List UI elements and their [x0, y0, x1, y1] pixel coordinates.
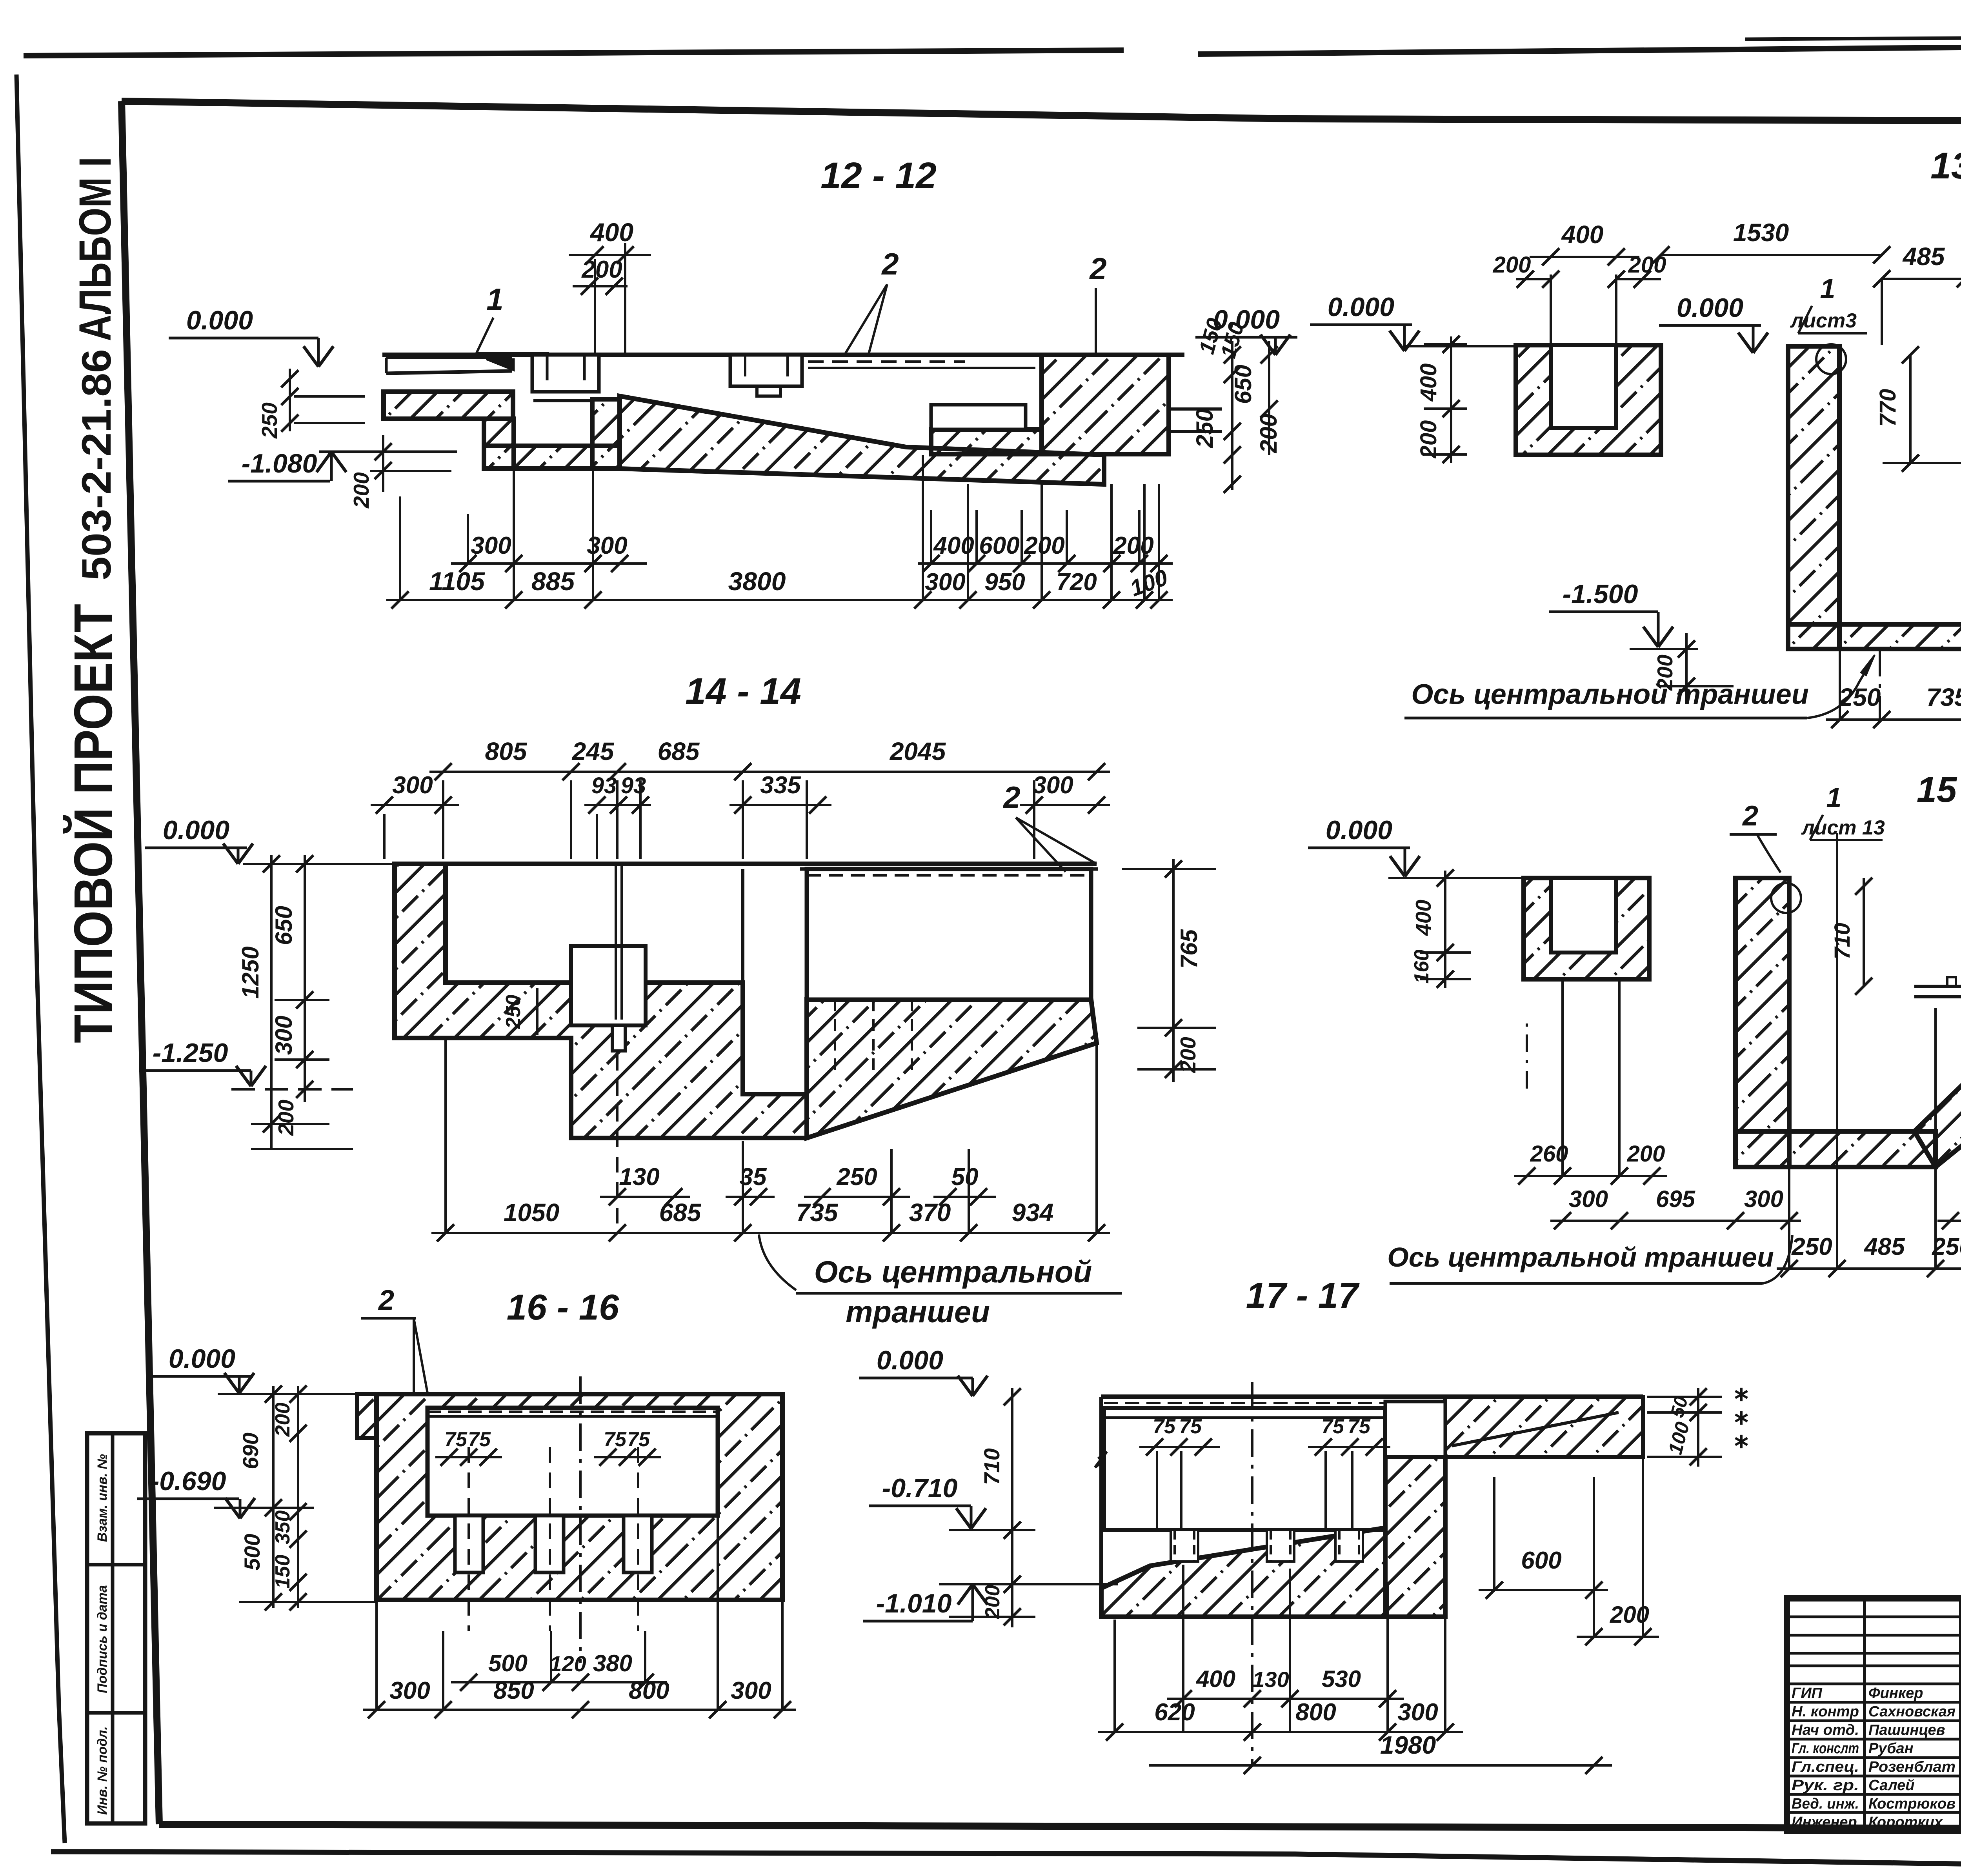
svg-text:530: 530 — [1322, 1666, 1361, 1692]
svg-text:1530: 1530 — [1733, 218, 1789, 247]
svg-text:1980: 1980 — [1380, 1731, 1436, 1759]
svg-text:765: 765 — [1176, 929, 1202, 969]
svg-text:ГИП: ГИП — [1792, 1685, 1823, 1701]
svg-text:650: 650 — [1230, 365, 1256, 404]
svg-text:300: 300 — [1033, 772, 1073, 799]
svg-text:300: 300 — [731, 1677, 771, 1704]
svg-text:17 - 17: 17 - 17 — [1246, 1276, 1360, 1316]
svg-text:Рубан: Рубан — [1868, 1740, 1914, 1757]
svg-text:Вед. инж.: Вед. инж. — [1792, 1796, 1859, 1812]
svg-text:950: 950 — [984, 569, 1025, 596]
svg-text:2: 2 — [1089, 251, 1106, 286]
svg-text:503-2-21.86: 503-2-21.86 — [74, 349, 120, 580]
svg-text:800: 800 — [629, 1677, 669, 1704]
svg-text:0.000: 0.000 — [1326, 815, 1392, 845]
svg-text:300: 300 — [1569, 1186, 1608, 1212]
svg-text:-1.010: -1.010 — [876, 1589, 952, 1618]
svg-text:0.000: 0.000 — [1677, 293, 1743, 323]
svg-text:0.000: 0.000 — [1328, 292, 1394, 322]
svg-text:400: 400 — [1411, 900, 1435, 936]
svg-text:685: 685 — [658, 737, 700, 765]
svg-text:200: 200 — [581, 256, 622, 283]
svg-text:620: 620 — [1154, 1699, 1195, 1726]
svg-text:120: 120 — [549, 1651, 586, 1676]
svg-text:300: 300 — [271, 1016, 297, 1055]
svg-text:-1.080: -1.080 — [242, 449, 317, 478]
svg-text:695: 695 — [1656, 1186, 1696, 1212]
svg-text:500: 500 — [240, 1534, 264, 1570]
svg-text:250: 250 — [502, 995, 525, 1029]
svg-text:0.000: 0.000 — [877, 1345, 943, 1375]
svg-text:-1.500: -1.500 — [1563, 579, 1638, 609]
svg-text:934: 934 — [1012, 1198, 1054, 1227]
svg-text:3800: 3800 — [728, 567, 786, 596]
svg-text:0.000: 0.000 — [186, 305, 253, 335]
svg-text:Коротких: Коротких — [1868, 1814, 1943, 1831]
svg-text:1: 1 — [1820, 273, 1835, 304]
svg-text:300: 300 — [471, 532, 511, 559]
svg-text:200: 200 — [1024, 532, 1064, 559]
svg-text:75: 75 — [444, 1428, 468, 1451]
svg-text:0.000: 0.000 — [169, 1344, 235, 1374]
svg-text:380: 380 — [593, 1650, 632, 1676]
svg-text:300: 300 — [392, 772, 433, 799]
svg-text:1: 1 — [1826, 782, 1842, 813]
svg-text:250: 250 — [1192, 409, 1218, 448]
svg-text:75: 75 — [468, 1428, 491, 1451]
svg-text:2: 2 — [1742, 800, 1758, 832]
svg-text:370: 370 — [909, 1198, 951, 1227]
svg-text:685: 685 — [659, 1198, 702, 1227]
svg-text:850: 850 — [493, 1677, 534, 1704]
svg-text:260: 260 — [1530, 1141, 1568, 1167]
svg-text:Ось центральной траншеи: Ось центральной траншеи — [1411, 679, 1809, 710]
svg-text:350: 350 — [271, 1511, 294, 1545]
svg-text:Гл. конслт: Гл. конслт — [1792, 1740, 1859, 1757]
svg-text:130: 130 — [1252, 1667, 1289, 1692]
svg-text:200: 200 — [1255, 414, 1282, 453]
svg-text:2: 2 — [881, 247, 899, 281]
svg-text:300: 300 — [925, 569, 965, 596]
svg-text:75: 75 — [1348, 1415, 1371, 1438]
svg-text:300: 300 — [1744, 1186, 1783, 1212]
svg-text:300: 300 — [389, 1677, 430, 1704]
svg-text:14 - 14: 14 - 14 — [685, 671, 801, 712]
svg-text:Розенблат: Розенблат — [1868, 1759, 1956, 1775]
svg-text:500: 500 — [488, 1650, 528, 1676]
svg-text:200: 200 — [1176, 1037, 1200, 1073]
svg-text:1105: 1105 — [429, 567, 485, 596]
svg-text:150: 150 — [271, 1555, 294, 1589]
svg-text:1250: 1250 — [237, 946, 264, 998]
svg-text:Нач отд.: Нач отд. — [1792, 1722, 1859, 1738]
svg-text:Гл.спец.: Гл.спец. — [1792, 1759, 1859, 1775]
svg-text:485: 485 — [1902, 242, 1945, 271]
svg-text:15 - 15: 15 - 15 — [1917, 770, 1961, 810]
svg-text:770: 770 — [1875, 389, 1901, 427]
svg-text:885: 885 — [531, 567, 575, 596]
svg-text:130: 130 — [619, 1163, 659, 1191]
svg-text:Кострюков: Кострюков — [1868, 1796, 1956, 1812]
svg-text:Сахновская: Сахновская — [1868, 1703, 1956, 1720]
svg-text:ТИПОВОЙ ПРОЕКТ: ТИПОВОЙ ПРОЕКТ — [63, 604, 124, 1043]
svg-text:800: 800 — [1295, 1699, 1336, 1726]
svg-text:16 - 16: 16 - 16 — [507, 1287, 619, 1327]
svg-text:400: 400 — [1416, 364, 1441, 402]
svg-text:75: 75 — [1179, 1415, 1202, 1438]
svg-text:50: 50 — [951, 1163, 979, 1191]
svg-text:Инженер: Инженер — [1792, 1814, 1857, 1831]
svg-text:12 - 12: 12 - 12 — [820, 155, 937, 196]
svg-text:траншеи: траншеи — [846, 1294, 990, 1329]
svg-text:400: 400 — [1561, 220, 1604, 249]
svg-text:600: 600 — [1521, 1547, 1561, 1574]
svg-text:Финкер: Финкер — [1868, 1685, 1923, 1701]
svg-text:13 - 13: 13 - 13 — [1930, 145, 1961, 187]
svg-text:Ось центральной: Ось центральной — [814, 1254, 1092, 1289]
svg-text:400: 400 — [1196, 1666, 1235, 1692]
svg-text:75: 75 — [1321, 1415, 1344, 1438]
svg-text:650: 650 — [271, 906, 297, 945]
svg-text:200: 200 — [981, 1585, 1004, 1620]
svg-text:200: 200 — [274, 1100, 298, 1136]
svg-text:АЛЬБОМ I: АЛЬБОМ I — [70, 157, 120, 341]
svg-text:250: 250 — [257, 402, 282, 439]
svg-text:1050: 1050 — [504, 1198, 559, 1227]
svg-text:Инв. № подл.: Инв. № подл. — [95, 1726, 110, 1815]
svg-text:Взам. инв. №: Взам. инв. № — [95, 1454, 110, 1542]
svg-text:-1.250: -1.250 — [153, 1038, 228, 1068]
svg-text:200: 200 — [271, 1403, 294, 1437]
svg-text:-0.710: -0.710 — [882, 1473, 958, 1503]
svg-text:735: 735 — [1926, 683, 1961, 711]
svg-text:Пашинцев: Пашинцев — [1868, 1722, 1945, 1738]
svg-text:400: 400 — [589, 218, 633, 247]
svg-text:335: 335 — [760, 772, 801, 799]
svg-text:Подпись и дата: Подпись и дата — [95, 1585, 110, 1693]
svg-text:Н. контр: Н. контр — [1792, 1703, 1859, 1720]
svg-text:735: 735 — [796, 1198, 839, 1227]
svg-text:245: 245 — [572, 737, 615, 765]
svg-text:600: 600 — [979, 532, 1019, 559]
svg-text:200: 200 — [1493, 252, 1531, 278]
svg-text:Салей: Салей — [1868, 1777, 1914, 1794]
svg-text:2: 2 — [378, 1285, 394, 1316]
svg-text:200: 200 — [1113, 532, 1153, 559]
svg-text:93: 93 — [621, 773, 646, 798]
svg-text:690: 690 — [238, 1432, 263, 1469]
svg-text:710: 710 — [979, 1448, 1004, 1485]
svg-text:200: 200 — [1627, 1141, 1665, 1167]
svg-text:200: 200 — [349, 472, 373, 509]
svg-text:485: 485 — [1863, 1233, 1905, 1260]
svg-text:75: 75 — [1153, 1415, 1176, 1438]
svg-text:1: 1 — [486, 282, 503, 316]
svg-text:805: 805 — [485, 737, 528, 765]
svg-text:-0.690: -0.690 — [151, 1466, 226, 1496]
svg-text:Рук. гр.: Рук. гр. — [1792, 1777, 1859, 1794]
svg-text:0.000: 0.000 — [163, 815, 229, 845]
svg-text:720: 720 — [1056, 569, 1097, 596]
svg-text:250: 250 — [1791, 1233, 1832, 1260]
svg-text:200: 200 — [1416, 420, 1441, 459]
svg-text:75: 75 — [604, 1428, 627, 1451]
svg-text:300: 300 — [1397, 1699, 1438, 1726]
svg-text:2045: 2045 — [890, 737, 946, 765]
svg-text:250: 250 — [1839, 683, 1881, 711]
svg-text:75: 75 — [627, 1428, 650, 1451]
svg-text:250: 250 — [836, 1163, 877, 1191]
svg-text:93: 93 — [591, 773, 617, 798]
svg-text:710: 710 — [1830, 923, 1854, 959]
svg-text:2: 2 — [1002, 780, 1020, 814]
svg-text:⁎: ⁎ — [1735, 1422, 1748, 1453]
svg-text:Ось центральной траншеи: Ось центральной траншеи — [1387, 1242, 1774, 1272]
